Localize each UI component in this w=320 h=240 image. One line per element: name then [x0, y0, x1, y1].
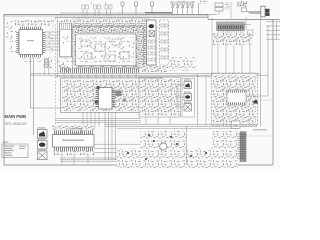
- connector pair boxes 2: [94, 5, 97, 9]
- cells in box A: [148, 40, 155, 61]
- tuner block dense circuitry upper: [73, 19, 151, 35]
- filter column box A: [147, 20, 157, 65]
- degauss dark symbol: [253, 100, 258, 104]
- keyboard box outline: [60, 23, 72, 57]
- IF block outline: [73, 27, 144, 69]
- relay box K-top lower: [215, 7, 223, 11]
- wires to jacks: [177, 85, 184, 107]
- svg-text:SFE-1003A-M2: SFE-1003A-M2: [5, 122, 27, 126]
- regulator block circuitry: [213, 75, 256, 124]
- labels above jacks: [184, 80, 191, 81]
- nested wires right of IC501: [94, 113, 141, 161]
- wire from LCR: [199, 3, 217, 15]
- speaker symbol boxes column left: [37, 129, 47, 159]
- IC801 pin wires: [219, 31, 243, 43]
- labels above IC501: [52, 125, 95, 131]
- crystal X01 box: [45, 59, 48, 62]
- crystal X02 box: [45, 64, 48, 67]
- audio top bus: [117, 128, 238, 130]
- IC801 pin squares: [218, 26, 243, 29]
- box above dark IC: [242, 8, 247, 12]
- crystal X01 cluster: [44, 58, 53, 69]
- IC201 left pins: [96, 89, 99, 109]
- top labels speckle: [80, 3, 113, 5]
- dashed vertical bus: [55, 17, 57, 147]
- IF/chroma section side columns: [73, 34, 76, 66]
- transistor Q01 cluster: [58, 64, 71, 72]
- IC901 inside regulator: [227, 90, 246, 105]
- audio upper circuitry: [140, 131, 186, 149]
- relay box K-top upper: [215, 3, 223, 15]
- IC301 interior blocks: [78, 37, 134, 63]
- IC01 label: [27, 40, 34, 41]
- speaker dark ellipse: [39, 143, 45, 147]
- audio sub box: [139, 77, 181, 117]
- P901 pin bumps: [240, 134, 245, 159]
- LCR parts group top: [200, 1, 208, 5]
- IC201 body: [99, 88, 113, 110]
- mid bus wire 3: [55, 76, 212, 78]
- diode marks under resistor row: [172, 2, 194, 15]
- ticks under filter boxes: [141, 66, 168, 73]
- audio small dark parts: [127, 134, 224, 160]
- box below regulator: [232, 121, 241, 129]
- legend caption: [3, 141, 9, 144]
- wire y96: [246, 95, 268, 97]
- labels below IC501: [53, 151, 95, 156]
- X symbol box in box A: [149, 31, 155, 37]
- legend text lines: [4, 146, 27, 156]
- wire crystal drops: [44, 57, 46, 75]
- IC501 body: [53, 135, 95, 148]
- IC01 right pins: [43, 31, 46, 53]
- keyboard box label: [63, 36, 69, 44]
- page frame: [4, 15, 280, 166]
- dashed leader from P901: [246, 135, 273, 137]
- long bus to right bottom b: [105, 125, 257, 127]
- mid bus wire 2: [31, 74, 269, 76]
- dark part b: [95, 101, 99, 104]
- microcontroller IC01 body: [19, 30, 43, 55]
- P901 left pins: [238, 134, 240, 158]
- labels above IC01: [15, 20, 54, 26]
- parts under IC801: [212, 33, 252, 45]
- top bus wires: [4, 13, 208, 17]
- resistor row labels: [171, 0, 195, 1]
- power IC IC801 dark body: [217, 22, 245, 31]
- filter column box B dashed: [160, 20, 169, 65]
- parts cluster top-right a: [225, 2, 230, 10]
- regulator block outline: [212, 73, 258, 126]
- vertical line right of jacks: [197, 74, 199, 126]
- wires from top connectors: [83, 10, 111, 16]
- transistor Q02 circle: [66, 67, 70, 71]
- speaker dark triangle: [39, 131, 46, 136]
- capacitor bank top-right: [237, 1, 247, 7]
- wire vertical left bus b: [33, 57, 35, 135]
- filter box above IC501: [71, 129, 82, 134]
- IC201 right pins: [112, 89, 116, 109]
- jack dark ellipse: [185, 95, 190, 99]
- labels above speaker boxes: [38, 127, 46, 128]
- wires to AC connector: [247, 12, 261, 14]
- bottom-right tiny label: [253, 129, 267, 130]
- jack dark triangle: [185, 83, 190, 87]
- dark part a: [97, 86, 100, 89]
- wire right of IC801: [244, 17, 251, 30]
- mid bus wire 1: [31, 73, 261, 75]
- svg-text:MAIN PWB: MAIN PWB: [5, 114, 27, 120]
- wire AC connector down: [260, 17, 262, 127]
- legend box: [2, 144, 28, 158]
- connector pair boxes 3: [105, 5, 108, 9]
- IC501 bottom pins: [53, 147, 94, 151]
- jack X symbol: [185, 105, 191, 111]
- wires IC801 section to regulator block: [218, 45, 250, 73]
- pin band under IF block: [60, 68, 140, 73]
- speaker X symbol: [39, 152, 46, 158]
- inner wire row b: [62, 82, 159, 84]
- IC301 big hybrid IC white box: [76, 34, 137, 66]
- vertical wire left of regulator: [205, 74, 207, 127]
- bottom bus wires: [60, 158, 117, 161]
- capacitor C-top 2: [135, 2, 138, 6]
- capacitor C-top 3: [151, 2, 154, 6]
- dashed leader to border: [261, 99, 274, 101]
- wire drops into video block: [64, 73, 136, 79]
- bottom right circuitry: [212, 131, 238, 162]
- audio power section circuitry: [117, 148, 238, 168]
- transformer T601 circle: [160, 143, 167, 150]
- wires video block to bottom: [55, 112, 141, 127]
- right border inner vertical: [267, 25, 269, 96]
- vertical bus c: [57, 17, 59, 78]
- IC01 top pins: [20, 27, 43, 30]
- AC connector dark blobs: [265, 9, 270, 16]
- wire vertical audio separator: [186, 126, 188, 164]
- IC501 top pin wires: [53, 131, 94, 135]
- wire top-right: [230, 2, 232, 19]
- IC801 top face: [217, 22, 244, 24]
- right edge stubs: [266, 22, 280, 40]
- box right of IC801: [248, 30, 253, 35]
- inner wire row a: [62, 80, 159, 82]
- IC202 small dark: [116, 91, 122, 97]
- IC01 bottom pins: [20, 55, 43, 58]
- resistor row R-top: [171, 2, 194, 5]
- wire vertical left bus a: [30, 57, 32, 108]
- connector P901 body: [240, 132, 246, 162]
- connector J-top pair boxes 1: [82, 5, 113, 9]
- dark ellipse in box A: [149, 24, 155, 28]
- capacitor C-top 1: [121, 2, 154, 15]
- keyboard box header cells: [60, 23, 72, 30]
- parts left of IC01: [6, 20, 16, 38]
- video block circuitry: [62, 81, 139, 112]
- video block outline: [61, 78, 163, 112]
- headphone jack symbol boxes column mid: [182, 79, 195, 118]
- AC connector outline: [261, 6, 265, 17]
- long bus to right bottom a: [105, 123, 257, 125]
- cells in box B: [161, 24, 168, 59]
- thick bus segment: [145, 12, 172, 14]
- vertical line left of top-right block: [211, 17, 213, 73]
- wire drops IC501 to bottom: [61, 156, 63, 166]
- transistor Q01 circle: [61, 65, 65, 69]
- IC01 left pins: [16, 31, 19, 53]
- wires IC01 to keyboard box: [45, 32, 59, 50]
- wire horizontal left: [31, 107, 63, 109]
- IC501 inner label: [62, 140, 84, 141]
